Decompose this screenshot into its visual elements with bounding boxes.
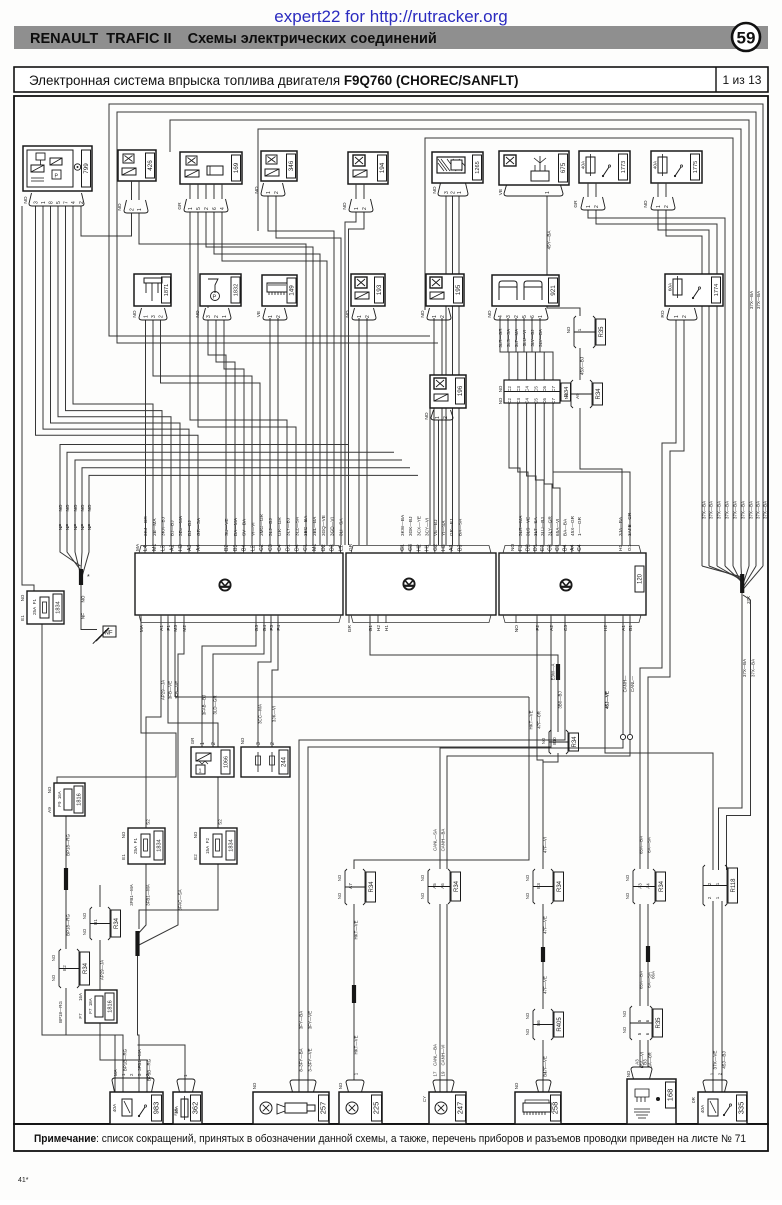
ECU pin bbox=[564, 615, 566, 623]
svg-text:R34: R34 bbox=[369, 881, 375, 893]
svg-text:NO: NO bbox=[420, 892, 425, 899]
svg-text:NO: NO bbox=[23, 196, 29, 203]
ECU pin bbox=[269, 545, 271, 553]
svg-text:A2: A2 bbox=[549, 625, 555, 631]
wire 1832 to ECU bbox=[224, 320, 244, 545]
wire bbox=[657, 183, 659, 197]
svg-text:B1: B1 bbox=[93, 919, 98, 925]
svg-text:983: 983 bbox=[152, 1102, 161, 1115]
svg-text:A3: A3 bbox=[638, 883, 643, 889]
svg-text:6: 6 bbox=[212, 207, 218, 210]
connector of 168 bbox=[631, 1067, 652, 1079]
svg-text:NO: NO bbox=[51, 954, 56, 961]
svg-text:2: 2 bbox=[682, 315, 688, 318]
component 675 bbox=[499, 151, 569, 185]
svg-text:3FB—VE: 3FB—VE bbox=[175, 681, 180, 699]
ECU pin bbox=[549, 545, 551, 553]
wire bbox=[355, 184, 357, 199]
ground NF bbox=[96, 628, 109, 641]
svg-text:47F—VI: 47F—VI bbox=[543, 837, 548, 853]
wire 196 to ECU bbox=[438, 420, 440, 545]
svg-text:NF: NF bbox=[73, 524, 78, 530]
svg-text:H3: H3 bbox=[178, 544, 184, 551]
wire 65A-BA from 1774 bbox=[640, 320, 676, 869]
svg-text:BP18—RG: BP18—RG bbox=[66, 914, 71, 936]
wire row1 to ECU bbox=[268, 196, 334, 545]
svg-text:NF: NF bbox=[58, 524, 63, 530]
ECU pin bbox=[409, 545, 411, 553]
svg-text:1265: 1265 bbox=[475, 161, 481, 173]
svg-text:3LT—SA: 3LT—SA bbox=[533, 516, 538, 536]
svg-text:BJ—BJ: BJ—BJ bbox=[187, 520, 192, 536]
wire 45Y-BA bbox=[547, 196, 580, 316]
ECU connector shell bottom bbox=[139, 615, 341, 623]
wire 3JK-VI to 244 bbox=[272, 617, 278, 747]
svg-text:362: 362 bbox=[191, 1102, 200, 1115]
svg-text:HKT—VE: HKT—VE bbox=[529, 710, 534, 729]
svg-text:NO: NO bbox=[82, 928, 87, 935]
svg-text:NO: NO bbox=[420, 310, 426, 317]
svg-text:A3: A3 bbox=[187, 545, 193, 551]
wire splice lead bbox=[742, 566, 763, 591]
wire top loop 37X bbox=[117, 112, 756, 566]
wire 196 to ECU bbox=[429, 408, 431, 545]
ECU pin bbox=[263, 615, 265, 623]
svg-text:B4: B4 bbox=[562, 545, 568, 551]
svg-text:195: 195 bbox=[455, 284, 462, 295]
CAN inline joints bbox=[620, 734, 625, 739]
fuse 1816 #1 F9 bbox=[54, 783, 85, 816]
svg-text:1: 1 bbox=[41, 201, 47, 204]
svg-text:NO: NO bbox=[58, 504, 63, 511]
wire 169 to ECU bbox=[190, 212, 287, 545]
connector 6A bbox=[630, 1006, 652, 1040]
svg-text:2: 2 bbox=[440, 315, 446, 318]
connector of 346 bbox=[261, 183, 285, 196]
wire 6A-OR to 168 bbox=[647, 1040, 649, 1067]
svg-text:D3: D3 bbox=[330, 544, 336, 551]
svg-text:45X—GR: 45X—GR bbox=[570, 515, 575, 536]
svg-text:GR: GR bbox=[190, 738, 195, 745]
svg-text:B3: B3 bbox=[536, 883, 541, 889]
wire 65A bbox=[639, 904, 641, 1006]
wire BP18-RG to 983 bbox=[66, 988, 123, 1092]
ECU pin bbox=[385, 615, 387, 623]
wire splice lead bbox=[709, 566, 742, 579]
wire top loop 37X bbox=[425, 138, 733, 566]
svg-text:GR: GR bbox=[348, 543, 354, 551]
wire bbox=[189, 184, 191, 199]
svg-text:2: 2 bbox=[707, 896, 712, 899]
svg-text:3: 3 bbox=[444, 191, 450, 194]
svg-text:3LZ—SA: 3LZ—SA bbox=[294, 516, 299, 536]
wire BP3B-RG to 983 bbox=[100, 1023, 147, 1092]
svg-text:C4: C4 bbox=[525, 398, 530, 404]
svg-text:SV—BA: SV—BA bbox=[242, 518, 247, 536]
svg-text:VE: VE bbox=[256, 311, 262, 317]
svg-text:H1: H1 bbox=[425, 544, 431, 551]
svg-text:B10: B10 bbox=[552, 737, 557, 745]
svg-text:R35: R35 bbox=[656, 1017, 662, 1029]
svg-text:F9 16A: F9 16A bbox=[57, 791, 62, 806]
svg-text:1: 1 bbox=[266, 191, 272, 194]
svg-text:8: 8 bbox=[48, 201, 54, 204]
svg-text:NO: NO bbox=[566, 326, 571, 333]
svg-text:799: 799 bbox=[83, 163, 90, 174]
wire bbox=[363, 184, 365, 199]
svg-text:NO: NO bbox=[80, 504, 85, 511]
svg-text:2: 2 bbox=[450, 191, 456, 194]
svg-text:GR—GR: GR—GR bbox=[277, 517, 282, 536]
svg-text:1: 1 bbox=[357, 315, 363, 318]
wire 799 to ECU A bbox=[43, 206, 189, 545]
svg-text:NO: NO bbox=[121, 831, 126, 838]
svg-text:1773: 1773 bbox=[621, 161, 627, 173]
svg-text:3BL—BA: 3BL—BA bbox=[312, 516, 317, 536]
wire 193 to ECU bbox=[358, 318, 360, 545]
svg-text:258: 258 bbox=[551, 1102, 560, 1115]
svg-text:NO: NO bbox=[51, 974, 56, 981]
ECU connector box A bbox=[135, 553, 343, 615]
svg-text:L3: L3 bbox=[161, 545, 167, 551]
svg-text:VI—VI: VI—VI bbox=[250, 522, 255, 536]
wire bbox=[197, 184, 199, 199]
svg-text:A9: A9 bbox=[47, 807, 52, 813]
svg-text:65A—BA: 65A—BA bbox=[639, 836, 644, 854]
svg-text:NO: NO bbox=[424, 412, 430, 419]
svg-text:45J—BJ: 45J—BJ bbox=[722, 1051, 727, 1068]
wire 3FY-BA to 257 bbox=[299, 617, 565, 1092]
svg-text:47F—VE: 47F—VE bbox=[543, 1056, 548, 1074]
ECU pin bbox=[167, 615, 169, 623]
svg-text:3LT—MA: 3LT—MA bbox=[514, 329, 519, 347]
wire to 362 bbox=[138, 1045, 186, 1092]
ECU pin bbox=[225, 545, 227, 553]
svg-text:3LI—SA: 3LI—SA bbox=[338, 518, 343, 536]
svg-text:45Y—BA: 45Y—BA bbox=[547, 230, 552, 250]
svg-text:NF: NF bbox=[87, 524, 92, 530]
splice 47F bbox=[541, 947, 545, 962]
svg-text:H2: H2 bbox=[376, 625, 382, 631]
svg-text:R34: R34 bbox=[114, 917, 120, 929]
wire loop2 branch bbox=[117, 240, 438, 343]
ECU pin bbox=[541, 545, 543, 553]
NF ground label box bbox=[103, 626, 116, 637]
connector A3A4 bbox=[633, 869, 655, 904]
ECU connector shell top bbox=[503, 546, 641, 554]
svg-text:NO: NO bbox=[82, 912, 87, 919]
svg-text:H2: H2 bbox=[416, 544, 422, 551]
svg-text:3B0—BJ: 3B0—BJ bbox=[558, 691, 563, 708]
svg-text:MA: MA bbox=[113, 1069, 118, 1076]
svg-text:47F—VE: 47F—VE bbox=[543, 976, 548, 994]
svg-text:NO: NO bbox=[195, 310, 201, 317]
svg-text:59: 59 bbox=[737, 29, 756, 48]
ECU pin bbox=[188, 545, 190, 553]
ECU connector shell bottom bbox=[503, 615, 641, 623]
svg-text:F1: F1 bbox=[166, 625, 172, 631]
svg-text:3LV—BA: 3LV—BA bbox=[538, 329, 543, 347]
svg-text:M3: M3 bbox=[173, 625, 179, 632]
wire bbox=[665, 183, 667, 197]
svg-text:3JK—VI: 3JK—VI bbox=[272, 706, 277, 722]
svg-text:R34: R34 bbox=[557, 880, 563, 892]
svg-text:D1: D1 bbox=[533, 544, 539, 551]
wire 149-1 to ECU bbox=[269, 318, 271, 545]
wire 3FB1-MA from E2 bbox=[139, 864, 218, 929]
connector B3 bbox=[533, 869, 553, 904]
svg-text:E3: E3 bbox=[540, 545, 546, 551]
wire 1265 to ECU bbox=[452, 196, 454, 545]
splice E3W-A bbox=[556, 664, 560, 680]
svg-text:AP29—JA: AP29—JA bbox=[161, 680, 166, 700]
wire NF ground bbox=[81, 475, 419, 582]
title box bbox=[14, 67, 768, 92]
svg-text:37X—BA: 37X—BA bbox=[750, 659, 755, 677]
svg-text:NO: NO bbox=[254, 186, 260, 193]
ECU pin bbox=[556, 545, 558, 553]
ECU connector box C 120 bbox=[499, 553, 646, 615]
ECU pin bbox=[140, 615, 142, 623]
svg-text:NO: NO bbox=[252, 1082, 257, 1089]
ECU pin bbox=[174, 615, 176, 623]
ECU pin bbox=[162, 545, 164, 553]
svg-text:BA—BA: BA—BA bbox=[562, 518, 567, 536]
svg-text:R405: R405 bbox=[557, 1017, 563, 1032]
connector of 1774 bbox=[667, 308, 697, 320]
wire bbox=[131, 181, 133, 200]
svg-text:E3W—A: E3W—A bbox=[551, 664, 556, 681]
ECU pin bbox=[450, 545, 452, 553]
svg-text:2: 2 bbox=[158, 315, 164, 318]
svg-text:3KA—BJ: 3KA—BJ bbox=[161, 517, 166, 536]
svg-text:NO: NO bbox=[47, 786, 52, 793]
ECU pin bbox=[170, 545, 172, 553]
page number circle 59 bbox=[732, 23, 760, 51]
svg-text:37X—BA: 37X—BA bbox=[701, 501, 706, 519]
wire 47F-VE to 258 bbox=[542, 1040, 544, 1092]
svg-text:2: 2 bbox=[129, 208, 135, 211]
wire 921 to R34 bbox=[532, 318, 544, 380]
svg-text:1: 1 bbox=[200, 742, 206, 745]
svg-text:426: 426 bbox=[147, 160, 154, 171]
wire 195 to ECU bbox=[441, 318, 443, 545]
svg-text:M1: M1 bbox=[152, 544, 158, 551]
svg-text:3FB—VE: 3FB—VE bbox=[168, 681, 173, 699]
svg-text:NO: NO bbox=[342, 202, 348, 209]
wire 1871 to ECU bbox=[153, 320, 252, 545]
relay 346 bbox=[261, 151, 297, 181]
wire 3FB1-MA bbox=[137, 864, 146, 935]
relay box 983 bbox=[110, 1092, 163, 1124]
svg-text:1: 1 bbox=[586, 205, 592, 208]
svg-text:2: 2 bbox=[276, 315, 282, 318]
svg-text:NO: NO bbox=[625, 892, 630, 899]
svg-text:60A: 60A bbox=[668, 282, 674, 291]
wire 1832 to ECU bbox=[216, 320, 235, 545]
connector strip R34 C2-C7 bbox=[504, 380, 560, 403]
svg-text:1834: 1834 bbox=[157, 839, 163, 851]
svg-text:37X—BA: 37X—BA bbox=[716, 501, 721, 519]
svg-text:CANL—BA: CANL—BA bbox=[433, 1044, 438, 1066]
svg-text:NO: NO bbox=[514, 1082, 519, 1089]
wire 921 to R34 bbox=[508, 318, 518, 380]
wire CANH-VI to 247 bbox=[446, 904, 448, 1092]
svg-text:NO: NO bbox=[525, 874, 530, 881]
svg-text:1: 1 bbox=[538, 315, 544, 318]
svg-text:A6: A6 bbox=[440, 883, 445, 889]
svg-text:A3: A3 bbox=[449, 545, 455, 551]
svg-text:37X—BA: 37X—BA bbox=[762, 501, 767, 519]
svg-text:A9: A9 bbox=[575, 393, 580, 399]
svg-text:NO: NO bbox=[525, 892, 530, 899]
wire splice lead bbox=[741, 566, 742, 586]
svg-text:3CC—MA: 3CC—MA bbox=[258, 704, 263, 724]
wire 3LD-GR to 1066 bbox=[213, 617, 264, 747]
svg-text:NO: NO bbox=[622, 1010, 627, 1017]
wire row1 to ECU bbox=[276, 196, 341, 545]
svg-text:66A: 66A bbox=[651, 971, 656, 979]
wire NF ground bbox=[75, 460, 402, 574]
svg-text:1774: 1774 bbox=[714, 284, 720, 296]
splice NF bbox=[79, 569, 83, 585]
svg-text:2: 2 bbox=[443, 416, 449, 419]
wire top loop 37X bbox=[258, 129, 741, 566]
svg-text:37X—BA: 37X—BA bbox=[755, 501, 760, 519]
relay box 335 bbox=[698, 1092, 747, 1124]
svg-text:R34: R34 bbox=[83, 962, 89, 974]
svg-text:3LJ—BJ: 3LJ—BJ bbox=[268, 518, 273, 536]
wire 3JA-BA to ECU C bbox=[580, 408, 622, 545]
socket 257 bbox=[253, 1092, 329, 1124]
svg-text:NO: NO bbox=[498, 385, 503, 392]
svg-text:A4: A4 bbox=[570, 545, 576, 551]
header grey bar bbox=[14, 26, 768, 49]
svg-text:C5: C5 bbox=[533, 386, 538, 392]
ECU connector shell top bbox=[351, 546, 491, 554]
ECU pin bbox=[348, 615, 350, 623]
wire 921 to R34 bbox=[540, 318, 553, 380]
svg-text:F3: F3 bbox=[518, 545, 524, 551]
svg-text:B1: B1 bbox=[628, 625, 634, 631]
svg-text:C2: C2 bbox=[259, 544, 265, 551]
wire 3FAC-SA to splice bbox=[137, 617, 184, 946]
wire to B1 conn bbox=[99, 885, 101, 907]
wire MA to 1816 bbox=[57, 617, 176, 783]
wire R34 to ECU C bbox=[535, 403, 544, 545]
wire 921 to R34 bbox=[516, 318, 527, 380]
wire loop1 branch bbox=[109, 233, 430, 336]
svg-text:NO: NO bbox=[564, 392, 569, 399]
svg-text:BP18—RG: BP18—RG bbox=[66, 834, 71, 856]
wire 47F bbox=[537, 617, 543, 869]
svg-text:25A F1: 25A F1 bbox=[32, 599, 37, 616]
svg-text:NO: NO bbox=[338, 1082, 343, 1089]
svg-text:NO: NO bbox=[345, 310, 351, 317]
fuse-switch 1774 bbox=[665, 274, 723, 306]
svg-text:C3: C3 bbox=[516, 386, 521, 392]
svg-text:NO: NO bbox=[132, 310, 138, 317]
svg-text:3FB1—MA: 3FB1—MA bbox=[129, 884, 134, 906]
wire 149-2 to ECU bbox=[277, 318, 279, 545]
svg-text:YI—SA: YI—SA bbox=[441, 520, 446, 536]
svg-text:F7 18A: F7 18A bbox=[88, 998, 93, 1013]
svg-text:NO: NO bbox=[87, 504, 92, 511]
svg-text:NO: NO bbox=[337, 892, 342, 899]
connector A5A6 bbox=[428, 869, 450, 904]
svg-text:R34: R34 bbox=[596, 388, 602, 400]
svg-text:40A: 40A bbox=[700, 1104, 706, 1113]
svg-text:3LS—SA: 3LS—SA bbox=[506, 329, 511, 347]
connector of 675 bbox=[504, 185, 563, 196]
svg-text:NO: NO bbox=[525, 1012, 530, 1019]
svg-text:D1: D1 bbox=[286, 544, 292, 551]
ECU pin bbox=[197, 545, 199, 553]
connector of 799 bbox=[29, 193, 84, 206]
wire 45X-BJ bbox=[579, 348, 581, 380]
wire 1832 to ECU bbox=[208, 320, 226, 545]
svg-text:A1: A1 bbox=[621, 625, 627, 631]
connector of 193 bbox=[352, 308, 376, 320]
svg-text:19: 19 bbox=[441, 1071, 446, 1076]
svg-text:2: 2 bbox=[707, 882, 712, 885]
ECU pin bbox=[434, 545, 436, 553]
svg-text:4: 4 bbox=[220, 207, 226, 210]
ECU pin bbox=[287, 545, 289, 553]
svg-text:3AFB—GR: 3AFB—GR bbox=[627, 512, 632, 536]
svg-text:3FAC—SA: 3FAC—SA bbox=[178, 889, 183, 910]
svg-text:3GQ—VE: 3GQ—VE bbox=[321, 515, 326, 536]
wire top loop 37X bbox=[109, 104, 763, 566]
svg-text:3FY—BA: 3FY—BA bbox=[299, 1011, 304, 1029]
ECU pin bbox=[179, 545, 181, 553]
wire bbox=[213, 184, 215, 199]
svg-text:C2: C2 bbox=[507, 386, 512, 392]
svg-text:C3: C3 bbox=[563, 625, 569, 631]
svg-text:C3: C3 bbox=[548, 544, 554, 551]
ECU pin bbox=[578, 545, 580, 553]
svg-text:2: 2 bbox=[514, 315, 520, 318]
connector of 258 bbox=[536, 1080, 551, 1092]
fuse box 362 bbox=[173, 1092, 202, 1124]
svg-text:168: 168 bbox=[666, 1089, 675, 1102]
svg-text:C1: C1 bbox=[303, 544, 309, 551]
svg-text:D2: D2 bbox=[321, 544, 327, 551]
svg-text:6A—SA: 6A—SA bbox=[647, 837, 652, 853]
connector B1 bbox=[90, 907, 110, 940]
svg-text:1——GR: 1——GR bbox=[577, 516, 582, 536]
svg-text:NF: NF bbox=[80, 524, 85, 530]
wire CANL bbox=[447, 617, 630, 869]
svg-text:37X—BA: 37X—BA bbox=[756, 291, 761, 309]
svg-text:47F—0R: 47F—0R bbox=[537, 711, 542, 729]
svg-text:40A: 40A bbox=[112, 1103, 118, 1112]
svg-text:2: 2 bbox=[365, 315, 371, 318]
component 169 bbox=[180, 152, 242, 184]
svg-text:F4: F4 bbox=[276, 625, 282, 631]
wire 37X-VE to 335 bbox=[712, 901, 714, 1092]
svg-text:NO: NO bbox=[65, 504, 70, 511]
component 244 bbox=[241, 747, 290, 777]
wire 6A-SA from 1774 bbox=[648, 320, 684, 869]
svg-text:37X—VE: 37X—VE bbox=[713, 1051, 718, 1070]
ECU connector shell bottom bbox=[351, 615, 491, 623]
svg-text:E1: E1 bbox=[121, 854, 126, 860]
svg-text:NO: NO bbox=[117, 203, 123, 210]
wire M3 to HKT bbox=[175, 696, 529, 698]
solenoid 168 bbox=[627, 1079, 676, 1124]
ECU pin bbox=[417, 545, 419, 553]
